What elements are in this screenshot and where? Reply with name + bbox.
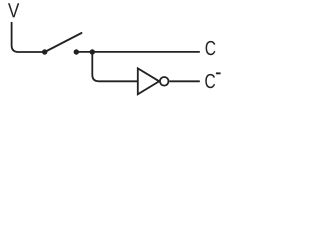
- switch right contact dot: [74, 49, 79, 54]
- node label C-bar: [205, 74, 215, 88]
- C-bar superscript minus: [216, 72, 221, 74]
- node V label: [8, 3, 19, 17]
- inverter bubble: [160, 77, 169, 86]
- inverter U1 triangle: [138, 68, 159, 94]
- node label C: [206, 41, 216, 55]
- wire from bubble to label C-bar: [169, 80, 199, 82]
- junction dot: [90, 49, 95, 54]
- wire branch down to inverter input: [92, 52, 138, 81]
- switch left contact dot: [42, 49, 47, 54]
- wire from V down and right to switch: [12, 22, 45, 52]
- wire from switch to node C: [76, 51, 200, 53]
- switch blade (open): [45, 33, 82, 52]
